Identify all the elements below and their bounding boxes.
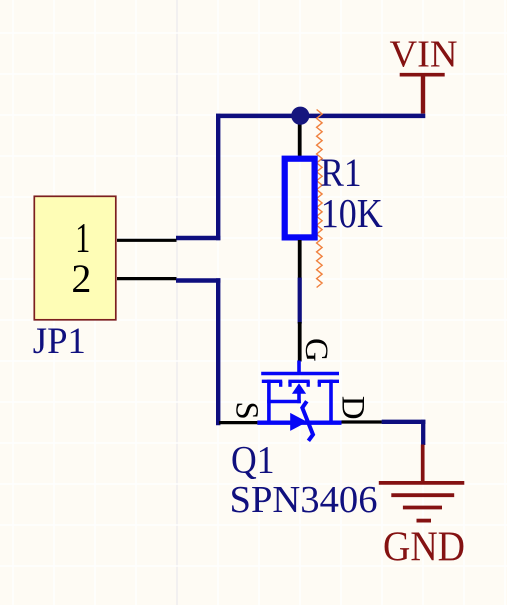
resistor R1 body bbox=[285, 159, 315, 238]
transistor Q1 symbol bbox=[257, 361, 341, 441]
connector JP1 body bbox=[34, 196, 116, 319]
junction dot bbox=[291, 107, 309, 125]
svg-text:VIN: VIN bbox=[390, 33, 458, 75]
svg-text:2: 2 bbox=[71, 256, 91, 301]
pin 1 stub bbox=[117, 239, 177, 242]
wire VIN net top horizontal bbox=[216, 114, 425, 119]
compile error squiggle bbox=[317, 110, 323, 288]
wire JP1 pin1 vertical riser bbox=[216, 114, 220, 241]
resistor R1 pin 2 (bottom) bbox=[298, 240, 302, 278]
svg-text:G: G bbox=[298, 338, 334, 362]
svg-text:S: S bbox=[228, 401, 264, 419]
power symbol VIN bbox=[390, 33, 458, 113]
wire JP1 pin2 vertical drop bbox=[216, 278, 220, 425]
svg-text:GND: GND bbox=[383, 525, 465, 571]
svg-text:R1: R1 bbox=[320, 150, 361, 195]
wire Q1 drain to GND horizontal bbox=[382, 420, 426, 424]
svg-text:10K: 10K bbox=[321, 190, 383, 236]
transistor Q1 source pin S bbox=[219, 421, 257, 424]
wire JP1 pin1 horizontal bbox=[176, 236, 220, 240]
wire JP1 pin2 horizontal bbox=[176, 278, 220, 282]
transistor Q1 drain pin D bbox=[342, 420, 382, 423]
wire GND vertical drop bbox=[421, 420, 425, 445]
svg-text:D: D bbox=[334, 396, 370, 420]
svg-text:Q1: Q1 bbox=[231, 439, 275, 482]
pin 2 stub bbox=[117, 277, 177, 280]
transistor Q1 gate pin G bbox=[298, 322, 302, 362]
resistor R1 pin 1 (top) bbox=[298, 117, 302, 157]
ground symbol GND bbox=[379, 445, 465, 571]
svg-text:JP1: JP1 bbox=[33, 320, 86, 361]
svg-text:SPN3406: SPN3406 bbox=[230, 479, 378, 521]
wire R1 to Q1 gate bbox=[298, 278, 302, 324]
